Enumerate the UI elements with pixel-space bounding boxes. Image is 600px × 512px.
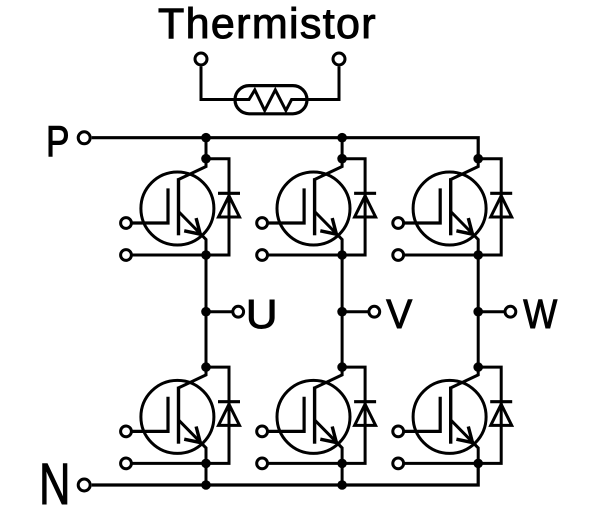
svg-text:N: N [39,452,71,512]
svg-text:U: U [246,291,278,337]
svg-text:V: V [386,291,413,337]
svg-text:P: P [46,117,70,166]
svg-text:Thermistor: Thermistor [158,0,377,48]
svg-text:W: W [523,291,557,337]
